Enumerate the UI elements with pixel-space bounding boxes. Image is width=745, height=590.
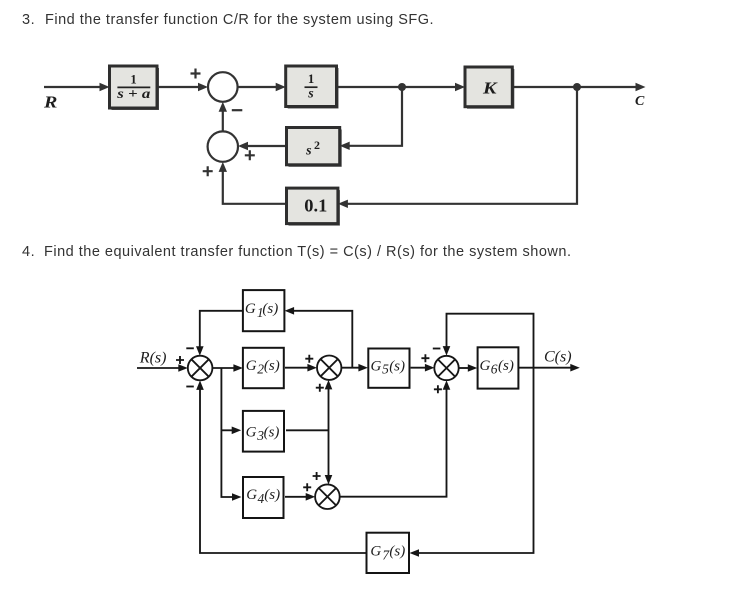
svg-text:(s): (s) — [389, 544, 405, 560]
svg-text:G: G — [246, 425, 257, 441]
svg-text:R: R — [43, 93, 57, 112]
svg-text:K: K — [482, 78, 499, 97]
svg-text:(s): (s) — [262, 301, 278, 317]
svg-text:s: s — [305, 144, 312, 159]
svg-text:0.1: 0.1 — [304, 196, 327, 216]
svg-text:(s): (s) — [389, 358, 405, 374]
svg-text:C: C — [635, 94, 645, 109]
svg-text:G: G — [370, 544, 381, 560]
svg-text:G: G — [246, 358, 257, 374]
svg-text:s + a: s + a — [116, 87, 150, 102]
svg-text:1: 1 — [130, 73, 136, 87]
svg-text:(s): (s) — [264, 425, 280, 441]
svg-text:R(s): R(s) — [139, 350, 167, 367]
svg-text:(s): (s) — [264, 487, 280, 503]
svg-text:1: 1 — [308, 72, 314, 86]
svg-text:s: s — [307, 87, 314, 102]
svg-text:6: 6 — [491, 362, 498, 377]
svg-text:C(s): C(s) — [544, 348, 572, 365]
svg-text:G: G — [371, 358, 382, 374]
svg-text:2: 2 — [314, 138, 320, 152]
svg-text:G: G — [246, 487, 257, 503]
svg-text:(s): (s) — [498, 358, 514, 374]
svg-text:G: G — [480, 358, 491, 374]
svg-text:G: G — [245, 301, 256, 317]
svg-text:5: 5 — [382, 362, 389, 377]
svg-text:(s): (s) — [264, 358, 280, 374]
